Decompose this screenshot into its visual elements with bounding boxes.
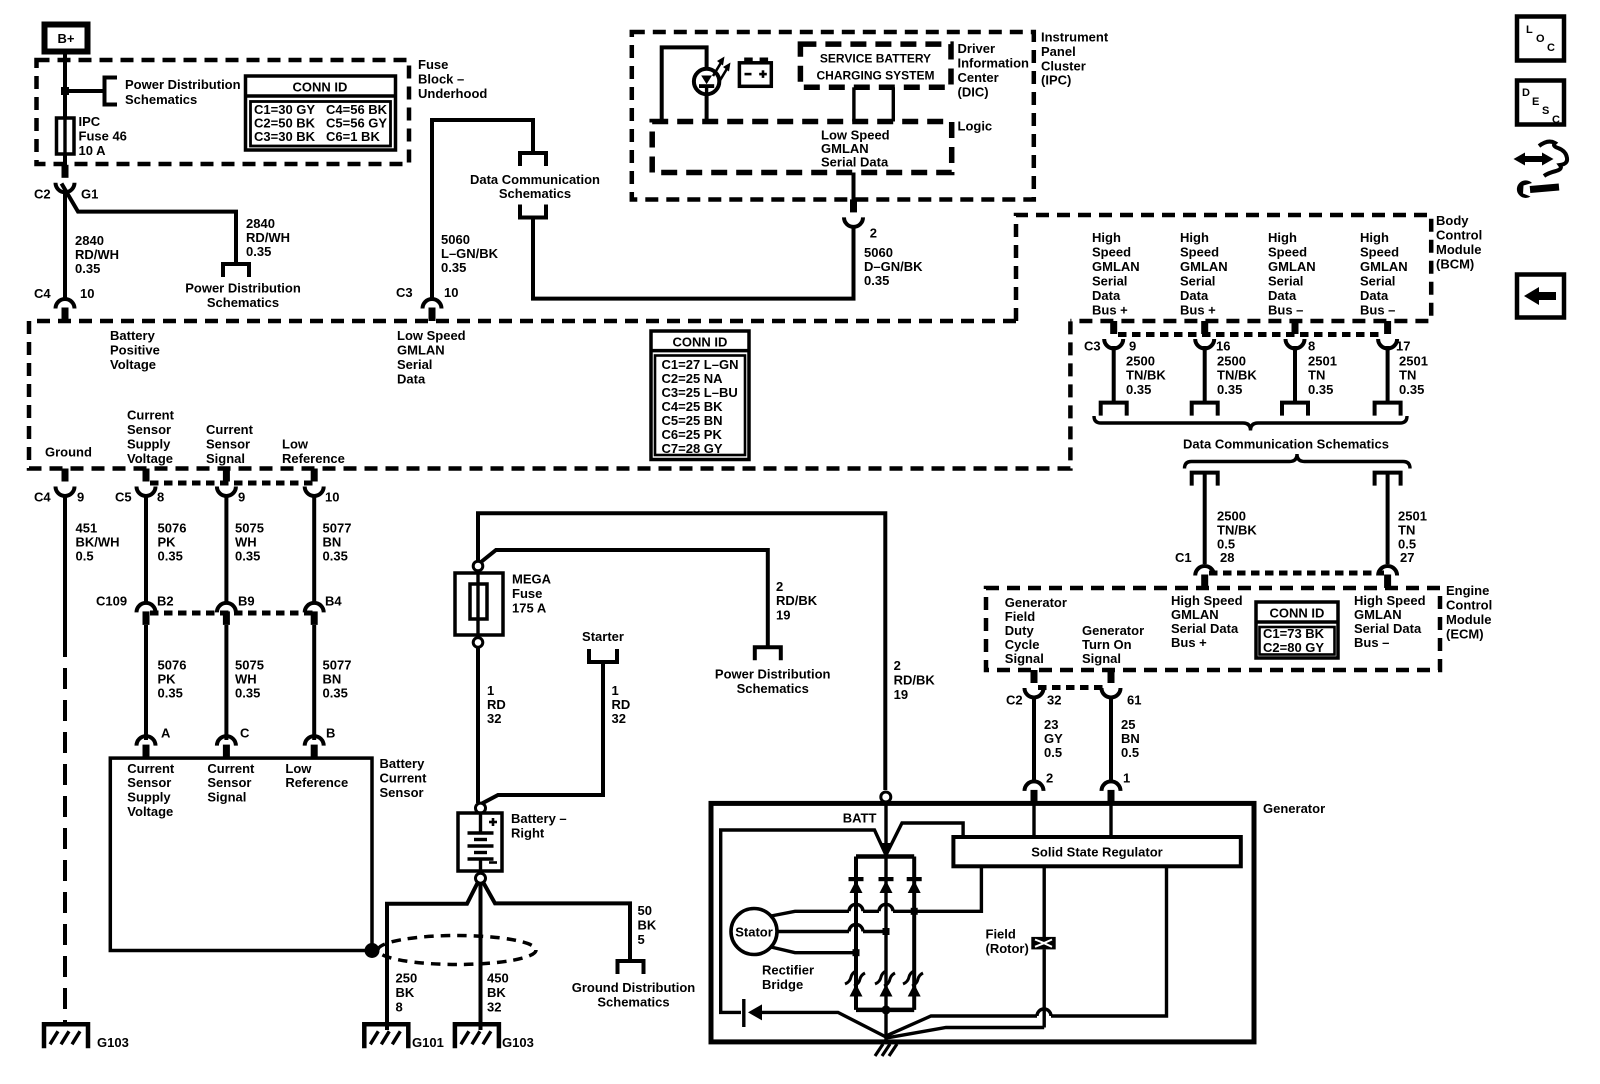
svg-text:C3=25 L–BU: C3=25 L–BU — [662, 385, 738, 400]
svg-text:Cycle: Cycle — [1005, 637, 1040, 652]
svg-text:23: 23 — [1044, 717, 1058, 732]
svg-text:50: 50 — [638, 903, 652, 918]
svg-text:C3=30 BK: C3=30 BK — [254, 129, 316, 144]
label MEGA Fuse 175 A — [512, 572, 552, 616]
svg-text:2501: 2501 — [1398, 509, 1427, 524]
svg-text:Voltage: Voltage — [127, 804, 173, 819]
off-page bracket Power Distribution — [105, 78, 118, 105]
svg-text:5060: 5060 — [864, 245, 893, 260]
svg-text:Body: Body — [1436, 213, 1469, 228]
svg-text:Serial: Serial — [1360, 274, 1395, 289]
svg-text:Serial: Serial — [397, 357, 432, 372]
connector C2 pin 32 exit ECM — [1025, 670, 1044, 698]
CONN ID table fuse block — [246, 76, 396, 150]
svg-text:1: 1 — [487, 683, 494, 698]
Body Control Module dashed box — [1016, 215, 1431, 321]
svg-text:RD: RD — [487, 697, 506, 712]
icon LOC box — [1517, 17, 1564, 61]
rectifier bridge frame — [856, 854, 914, 859]
svg-text:Serial Data: Serial Data — [1171, 621, 1239, 636]
svg-text:C1=73 BK: C1=73 BK — [1263, 626, 1325, 641]
svg-text:32: 32 — [612, 711, 626, 726]
wire 5060 D-GN/BK from data comm to IPC pin 2 — [533, 218, 854, 299]
wire ECM pin2 into regulator — [1032, 803, 1035, 837]
wire 1 RD 32 starter — [481, 662, 603, 804]
label Generator Turn On Signal — [1082, 623, 1144, 666]
svg-text:16: 16 — [1216, 339, 1230, 354]
label 450 BK 32 — [487, 971, 509, 1015]
svg-text:Signal: Signal — [207, 790, 246, 805]
connector C4 pin 10 entry — [56, 299, 75, 321]
wire LED to logic box — [705, 93, 709, 122]
svg-text:Information: Information — [958, 56, 1030, 71]
svg-text:451: 451 — [76, 521, 98, 536]
connector C3 BCM pin 9 — [1104, 321, 1123, 349]
svg-text:2: 2 — [1046, 771, 1053, 786]
label 2 RD/BK 19 right — [894, 658, 936, 702]
svg-text:5: 5 — [638, 932, 645, 947]
svg-text:Current: Current — [380, 771, 428, 786]
connector C3 BCM dashed link — [1118, 332, 1384, 337]
svg-text:1: 1 — [1123, 771, 1130, 786]
svg-text:Control: Control — [1446, 598, 1492, 613]
svg-text:2500: 2500 — [1217, 354, 1246, 369]
label 50 BK 5 — [638, 903, 657, 947]
label Low Reference inside — [285, 761, 348, 790]
svg-text:5076: 5076 — [158, 658, 187, 673]
label Driver Information Center (DIC) — [958, 41, 1030, 100]
svg-text:BK: BK — [487, 985, 506, 1000]
svg-text:0.35: 0.35 — [323, 549, 348, 564]
svg-text:Reference: Reference — [282, 451, 345, 466]
svg-text:TN: TN — [1399, 368, 1416, 383]
connector B entry BCS — [305, 736, 324, 758]
label Battery - Right — [511, 811, 567, 841]
diode top right — [907, 877, 922, 893]
stator — [731, 909, 777, 955]
junction dot bridge bottom — [882, 1005, 891, 1014]
Battery Current Sensor box — [110, 758, 372, 950]
svg-text:Power Distribution: Power Distribution — [715, 667, 831, 682]
wire 2500 TN/BK 0.5 — [1203, 473, 1207, 564]
svg-text:0.35: 0.35 — [235, 686, 260, 701]
connector C3 pin 10 entry fuse block — [423, 299, 442, 321]
svg-text:BK: BK — [638, 918, 657, 933]
label Current Sensor Supply Voltage — [127, 408, 175, 467]
svg-text:0.5: 0.5 — [1121, 745, 1139, 760]
svg-text:5075: 5075 — [235, 521, 264, 536]
svg-text:Instrument: Instrument — [1041, 30, 1109, 45]
CONN ID table harness — [651, 331, 749, 460]
diode bottom right — [908, 984, 921, 997]
svg-text:TN/BK: TN/BK — [1126, 368, 1166, 383]
svg-text:B: B — [326, 726, 335, 741]
svg-text:Signal: Signal — [1005, 651, 1044, 666]
wire MEGA top to power dist branch — [481, 550, 768, 647]
svg-text:Fuse: Fuse — [418, 57, 448, 72]
svg-text:5075: 5075 — [235, 658, 264, 673]
svg-text:PK: PK — [158, 672, 177, 687]
svg-text:B2: B2 — [157, 594, 174, 609]
connector C3 BCM pin 17 — [1378, 321, 1397, 349]
svg-text:Sensor: Sensor — [380, 785, 424, 800]
connector C entry BCS — [217, 736, 236, 758]
svg-text:High: High — [1360, 230, 1389, 245]
svg-text:Battery –: Battery – — [511, 811, 567, 826]
wire ECM pin1 into regulator — [1109, 803, 1112, 837]
svg-text:TN/BK: TN/BK — [1217, 368, 1257, 383]
svg-text:Right: Right — [511, 826, 545, 841]
svg-text:Field: Field — [1005, 609, 1035, 624]
svg-text:B+: B+ — [58, 31, 75, 46]
svg-text:Bus –: Bus – — [1268, 303, 1303, 318]
svg-text:0.35: 0.35 — [1308, 382, 1333, 397]
svg-text:Serial Data: Serial Data — [1354, 621, 1422, 636]
svg-text:Fuse: Fuse — [512, 586, 542, 601]
svg-text:5077: 5077 — [323, 521, 352, 536]
ground G103 left — [44, 1024, 88, 1048]
svg-text:61: 61 — [1127, 693, 1141, 708]
svg-text:GMLAN: GMLAN — [1360, 259, 1408, 274]
svg-text:G101: G101 — [412, 1035, 444, 1050]
svg-text:C5=25 BN: C5=25 BN — [662, 413, 723, 428]
svg-text:Current: Current — [206, 422, 254, 437]
wire 2500 TN/BK col1 — [1112, 346, 1116, 403]
svg-text:Low: Low — [282, 437, 309, 452]
wire 5075 WH 0.35 lower — [224, 625, 228, 740]
label IPC Fuse 46 10 A — [79, 114, 127, 158]
generator ground hash — [875, 1044, 897, 1056]
svg-text:Bus –: Bus – — [1354, 635, 1389, 650]
connector C1 dashed link — [1209, 571, 1384, 576]
svg-text:0.35: 0.35 — [1399, 382, 1424, 397]
junction phase3 left rail — [853, 949, 860, 956]
battery Battery-Right — [458, 803, 502, 883]
label Data Communication Schematics — [470, 172, 600, 201]
svg-text:TN/BK: TN/BK — [1217, 523, 1257, 538]
curly brace upper — [1094, 416, 1407, 431]
svg-text:175 A: 175 A — [512, 601, 547, 616]
svg-text:GMLAN: GMLAN — [1268, 259, 1316, 274]
svg-text:BN: BN — [323, 672, 342, 687]
svg-text:GMLAN: GMLAN — [1354, 607, 1402, 622]
svg-text:9: 9 — [238, 490, 245, 505]
svg-text:Bus –: Bus – — [1360, 303, 1395, 318]
fuse IPC Fuse 46 10A — [57, 118, 75, 154]
connector A entry BCS — [137, 736, 156, 758]
svg-text:C2=25 NA: C2=25 NA — [662, 371, 724, 386]
icon double arrow with hook — [1514, 142, 1568, 176]
svg-text:Module: Module — [1446, 612, 1492, 627]
connector pin 2 entry generator — [1025, 781, 1044, 803]
off-page bracket ECM wire 1 — [1192, 473, 1218, 486]
svg-text:Serial: Serial — [1268, 274, 1303, 289]
svg-text:Current: Current — [207, 761, 255, 776]
wire logic box to IPC edge — [852, 173, 856, 201]
junction dot BCS corner — [365, 943, 380, 958]
connector C2 pin 61 exit ECM — [1102, 670, 1121, 698]
wire regulator BATT sense — [886, 823, 963, 855]
regulator ground return — [886, 866, 1167, 1036]
svg-text:Battery: Battery — [110, 328, 156, 343]
label Low Speed GMLAN Serial Data — [397, 328, 466, 387]
svg-text:RD/BK: RD/BK — [894, 673, 936, 688]
label High Speed GMLAN Serial Data Bus + col2 — [1180, 230, 1228, 318]
svg-text:0.35: 0.35 — [75, 261, 100, 276]
svg-text:Bus +: Bus + — [1092, 303, 1128, 318]
svg-text:Current: Current — [127, 761, 175, 776]
wire B+ to fuse — [63, 51, 67, 118]
svg-text:Stator: Stator — [735, 925, 773, 940]
svg-text:G103: G103 — [97, 1035, 129, 1050]
svg-text:G1: G1 — [81, 187, 98, 202]
svg-text:Voltage: Voltage — [110, 357, 156, 372]
wire 5076 PK 0.35 upper — [144, 494, 148, 604]
svg-text:Starter: Starter — [582, 629, 624, 644]
off-page bracket ground distribution — [618, 961, 644, 974]
svg-text:0.35: 0.35 — [246, 244, 271, 259]
svg-text:Schematics: Schematics — [499, 186, 571, 201]
wire 450 BK 32 battery to G103 — [479, 883, 483, 1030]
svg-text:Speed: Speed — [1360, 245, 1399, 260]
svg-text:SERVICE BATTERY: SERVICE BATTERY — [820, 52, 931, 66]
connector pin 1 entry generator — [1102, 781, 1121, 803]
wire 1 RD 32 fuse to battery — [476, 647, 480, 803]
connector pin 2 exit IPC — [844, 199, 863, 227]
wire 5076 PK 0.35 lower — [144, 625, 148, 740]
svg-text:32: 32 — [487, 1000, 501, 1015]
stator phase 1 wire — [771, 866, 981, 916]
wire 2840 RD/WH down to C4 — [63, 190, 67, 300]
svg-text:Fuse 46: Fuse 46 — [79, 129, 127, 144]
CONN ID table ECM — [1256, 602, 1338, 658]
svg-text:C1=27 L–GN: C1=27 L–GN — [662, 357, 739, 372]
svg-text:C2=80 GY: C2=80 GY — [1263, 640, 1324, 655]
svg-text:32: 32 — [1047, 693, 1061, 708]
svg-text:RD/WH: RD/WH — [246, 230, 290, 245]
svg-text:2500: 2500 — [1217, 509, 1246, 524]
svg-text:Sensor: Sensor — [207, 775, 251, 790]
svg-text:Data: Data — [1092, 288, 1121, 303]
diode top left — [849, 877, 864, 893]
svg-text:TN: TN — [1308, 368, 1325, 383]
svg-text:Speed: Speed — [1180, 245, 1219, 260]
svg-text:IPC: IPC — [79, 114, 101, 129]
squiggle marks bottom diodes — [845, 971, 923, 986]
svg-text:0.35: 0.35 — [1217, 382, 1242, 397]
wire capacitor loop top — [721, 830, 886, 1012]
wire 2501 TN col3 — [1293, 346, 1297, 403]
hop phase1 over left rail — [849, 904, 863, 911]
svg-text:CONN ID: CONN ID — [1270, 606, 1325, 621]
junction dot — [61, 87, 69, 95]
svg-text:Turn On: Turn On — [1082, 637, 1132, 652]
LED flash arrows — [713, 57, 731, 83]
svg-text:Data Communication: Data Communication — [470, 172, 600, 187]
svg-text:1: 1 — [612, 683, 619, 698]
svg-text:Reference: Reference — [285, 775, 348, 790]
svg-text:Control: Control — [1436, 228, 1482, 243]
ground G103 mid — [455, 1024, 499, 1048]
field wire from regulator — [1042, 866, 1045, 937]
svg-text:Data: Data — [1268, 288, 1297, 303]
SERVICE BATTERY CHARGING SYSTEM dashed box — [800, 44, 951, 87]
label Battery Positive Voltage — [110, 328, 160, 372]
svg-text:Panel: Panel — [1041, 44, 1076, 59]
off-page bracket data comm bottom — [520, 205, 546, 218]
icon back arrow box — [1517, 275, 1564, 318]
off-page bracket ECM wire 2 — [1375, 473, 1401, 486]
wire junction to bracket — [65, 89, 104, 93]
label Engine Control Module (ECM) — [1446, 583, 1492, 642]
field return wire — [886, 949, 1044, 1038]
label Current Sensor Signal inside — [207, 761, 255, 805]
svg-text:Bridge: Bridge — [762, 977, 803, 992]
connector C5 pin 10 exit — [305, 469, 324, 497]
svg-text:10: 10 — [80, 286, 94, 301]
svg-text:Sensor: Sensor — [206, 437, 250, 452]
svg-text:D: D — [1522, 87, 1530, 99]
wire MEGA fuse to generator top run — [478, 513, 885, 790]
label Field (Rotor) — [986, 927, 1029, 957]
Solid State Regulator box — [953, 837, 1240, 866]
off-page bracket to Power Distribution Schematics — [223, 264, 249, 277]
svg-text:Voltage: Voltage — [127, 451, 173, 466]
svg-text:Rectifier: Rectifier — [762, 963, 814, 978]
svg-text:Data: Data — [397, 372, 426, 387]
svg-text:Low Speed: Low Speed — [397, 328, 466, 343]
label 5060 L-GN/BK 0.35 — [441, 232, 499, 275]
svg-text:D–GN/BK: D–GN/BK — [864, 259, 923, 274]
Fuse Block - Underhood dashed box — [37, 60, 410, 164]
svg-text:(IPC): (IPC) — [1041, 73, 1071, 88]
svg-text:C3: C3 — [1084, 339, 1101, 354]
label Low Reference — [282, 437, 345, 467]
wire battery to G101 — [387, 882, 478, 1030]
connector C109 B9 — [217, 603, 236, 625]
svg-text:WH: WH — [235, 672, 257, 687]
svg-text:BATT: BATT — [843, 811, 877, 826]
connector C5 pin 8 exit — [137, 469, 156, 497]
svg-text:Center: Center — [958, 70, 999, 85]
svg-text:Signal: Signal — [206, 451, 245, 466]
svg-text:0.35: 0.35 — [441, 260, 466, 275]
svg-text:8: 8 — [396, 1000, 403, 1015]
svg-text:C2: C2 — [1006, 693, 1023, 708]
svg-text:C5: C5 — [115, 490, 132, 505]
svg-text:BN: BN — [1121, 731, 1140, 746]
connector C4 pin 9 exit — [56, 469, 75, 497]
svg-text:2: 2 — [870, 226, 877, 241]
wire 5075 WH 0.35 upper — [224, 494, 228, 604]
connector C3 BCM pin 8 — [1286, 321, 1305, 349]
svg-text:Power Distribution: Power Distribution — [125, 77, 241, 92]
svg-text:Data: Data — [1180, 288, 1209, 303]
wire fuse to edge — [63, 154, 67, 165]
label 2 RD/BK 19 mid — [776, 579, 818, 623]
svg-text:19: 19 — [894, 687, 908, 702]
wire 5060 L-GN/BK riser — [432, 120, 533, 300]
hop ground return over field wire — [1037, 1009, 1051, 1016]
svg-text:Serial Data: Serial Data — [821, 155, 889, 170]
svg-text:High Speed: High Speed — [1354, 593, 1426, 608]
svg-text:(DIC): (DIC) — [958, 85, 989, 100]
svg-text:450: 450 — [487, 971, 509, 986]
svg-text:Schematics: Schematics — [207, 295, 279, 310]
svg-text:Current: Current — [127, 408, 175, 423]
svg-text:10: 10 — [444, 285, 458, 300]
svg-text:10 A: 10 A — [79, 143, 107, 158]
svg-text:Data Communication Schematics: Data Communication Schematics — [1183, 437, 1389, 452]
connector C1 pin 28 entry ECM — [1195, 566, 1214, 588]
svg-text:8: 8 — [157, 490, 164, 505]
svg-text:RD/BK: RD/BK — [776, 593, 818, 608]
svg-text:Low: Low — [285, 761, 312, 776]
wire branch to power distribution — [62, 184, 237, 265]
svg-text:2500: 2500 — [1126, 354, 1155, 369]
svg-text:2840: 2840 — [75, 233, 104, 248]
diode top mid — [879, 877, 894, 893]
svg-text:5077: 5077 — [323, 658, 352, 673]
svg-text:GY: GY — [1044, 731, 1063, 746]
wire 2501 TN col4 — [1386, 346, 1390, 403]
label Power Distribution Schematics — [125, 77, 241, 107]
svg-text:C109: C109 — [96, 594, 127, 609]
Instrument Panel Cluster dashed box — [632, 32, 1034, 200]
svg-text:Generator: Generator — [1005, 595, 1067, 610]
label High Speed GMLAN Serial Data Bus + col1 — [1092, 230, 1140, 318]
svg-text:8: 8 — [1308, 339, 1315, 354]
label Current Sensor Signal — [206, 422, 254, 466]
connector C109 dashed link — [150, 611, 318, 616]
svg-text:Schematics: Schematics — [737, 681, 809, 696]
svg-text:C6=25 PK: C6=25 PK — [662, 427, 723, 442]
svg-text:Sensor: Sensor — [127, 775, 171, 790]
wires DIC to logic box — [852, 87, 855, 121]
svg-text:C: C — [1552, 114, 1560, 126]
svg-text:B9: B9 — [238, 594, 255, 609]
junction phase2 mid rail — [883, 928, 890, 935]
svg-text:(BCM): (BCM) — [1436, 257, 1474, 272]
svg-text:9: 9 — [1129, 339, 1136, 354]
svg-text:5060: 5060 — [441, 232, 470, 247]
curly brace lower — [1185, 454, 1411, 469]
label Rectifier Bridge — [762, 963, 814, 993]
svg-text:Driver: Driver — [958, 41, 996, 56]
label Fuse Block - Underhood — [418, 57, 487, 101]
svg-text:0.35: 0.35 — [323, 686, 348, 701]
svg-text:(Rotor): (Rotor) — [986, 941, 1029, 956]
wire battery to ground dist — [483, 882, 630, 961]
svg-text:2501: 2501 — [1399, 354, 1428, 369]
junction phase1 right rail — [911, 908, 918, 915]
svg-text:17: 17 — [1396, 339, 1410, 354]
svg-text:0.35: 0.35 — [235, 549, 260, 564]
svg-text:Schematics: Schematics — [597, 995, 669, 1010]
connector C2 G1 exit — [56, 165, 75, 193]
svg-text:C7=28 GY: C7=28 GY — [662, 441, 723, 456]
wire 25 BN 0.5 — [1109, 696, 1113, 781]
BATT bus with arrow — [884, 802, 887, 844]
svg-text:Speed: Speed — [1268, 245, 1307, 260]
svg-text:GMLAN: GMLAN — [1180, 259, 1228, 274]
svg-text:Cluster: Cluster — [1041, 59, 1086, 74]
svg-text:CONN ID: CONN ID — [293, 80, 348, 95]
capacitor — [744, 999, 762, 1027]
svg-text:C: C — [1547, 42, 1555, 54]
wire 2500 TN/BK col2 — [1203, 346, 1207, 403]
svg-text:Underhood: Underhood — [418, 86, 487, 101]
